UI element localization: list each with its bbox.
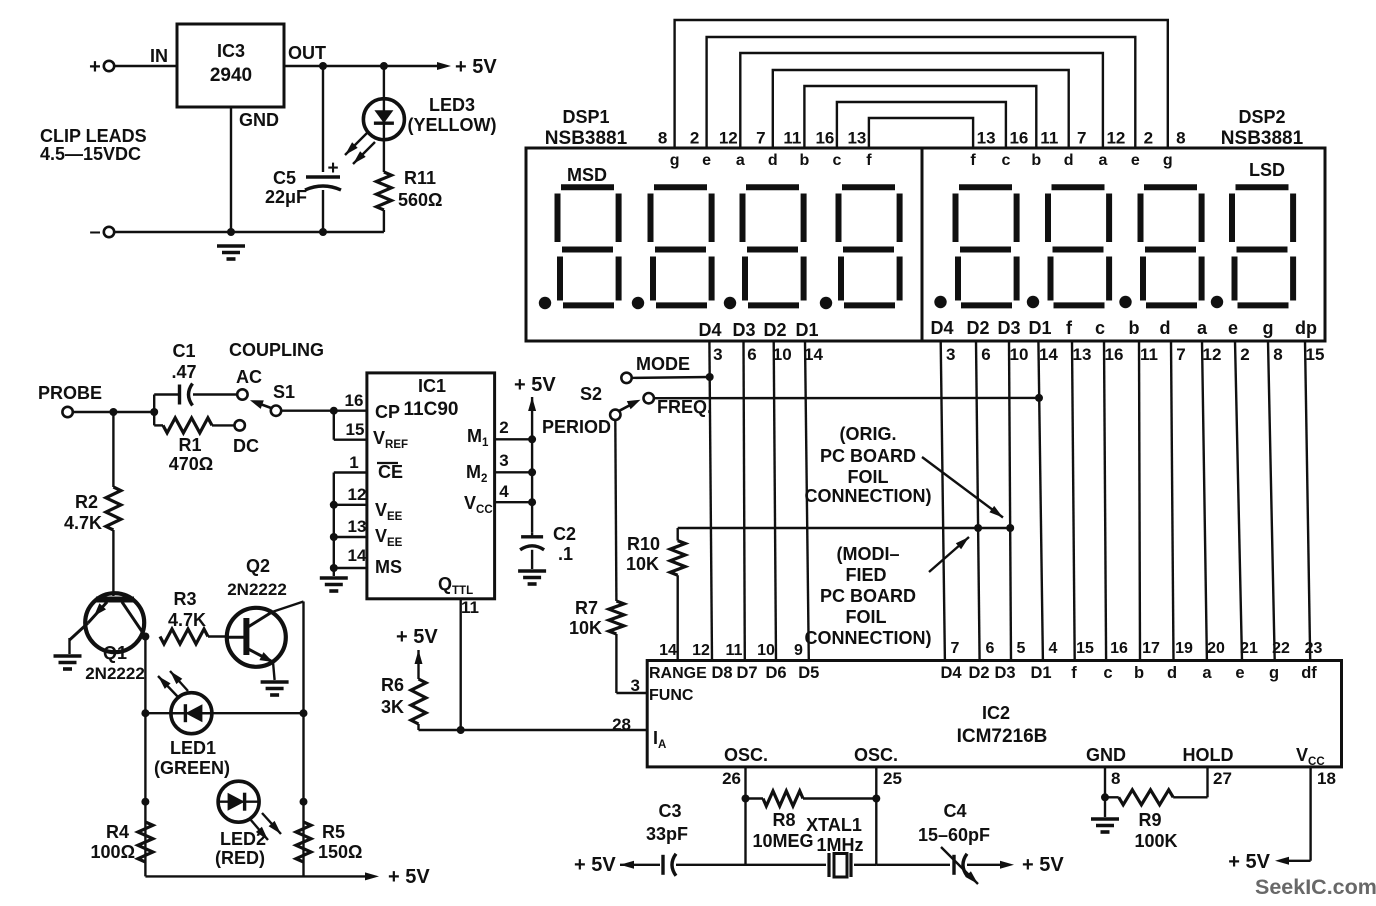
svg-text:+ 5V: + 5V (396, 626, 438, 648)
wire probe to coupling network (73, 395, 158, 426)
svg-text:AC: AC (236, 367, 262, 387)
ground at C2 (518, 571, 546, 584)
svg-text:26: 26 (722, 769, 741, 788)
svg-text:MODE: MODE (636, 354, 690, 374)
svg-text:e: e (1228, 318, 1238, 338)
svg-text:D3: D3 (732, 320, 755, 340)
svg-text:12: 12 (348, 485, 367, 504)
svg-text:R3: R3 (173, 589, 196, 609)
svg-text:11: 11 (783, 129, 801, 148)
svg-text:22μF: 22μF (265, 187, 307, 207)
svg-text:+: + (89, 56, 101, 78)
svg-text:(RED): (RED) (215, 848, 265, 868)
label CLIP LEADS 4.5-15VDC (40, 126, 147, 164)
svg-text:dp: dp (1295, 318, 1317, 338)
svg-text:XTAL1: XTAL1 (806, 815, 862, 835)
wire bottom rail (115, 228, 384, 236)
DSP1 digit 2 segments (632, 187, 712, 309)
svg-text:NSB3881: NSB3881 (545, 128, 628, 149)
IC2 FUNC label (649, 687, 694, 704)
wire DSP2 column pin 10 (1009, 341, 1028, 661)
svg-text:(ORIG.: (ORIG. (840, 424, 897, 444)
wire segment loop e-e DSP1 pin 2 to DSP2 pin 16 (690, 37, 1153, 148)
svg-text:(MODI–: (MODI– (837, 544, 900, 564)
pin 15 VREF stub and tie (334, 411, 367, 440)
svg-text:2N2222: 2N2222 (85, 664, 145, 683)
svg-text:a: a (736, 152, 745, 169)
DSP2 digit 1 segments (934, 187, 1016, 308)
svg-text:11C90: 11C90 (404, 399, 459, 420)
svg-text:R6: R6 (381, 675, 404, 695)
svg-text:d: d (1167, 664, 1177, 682)
svg-text:CLIP LEADS: CLIP LEADS (40, 126, 147, 146)
wire PERIOD down to R7 (615, 420, 616, 601)
svg-text:12: 12 (719, 129, 738, 148)
wire VCC to +5V (1228, 851, 1310, 873)
svg-text:e: e (1131, 152, 1140, 169)
svg-text:d: d (768, 152, 778, 169)
wire DSP2 column pin 6 (976, 341, 991, 661)
svg-text:CONNECTION): CONNECTION) (805, 628, 932, 648)
DSP2 digit 2 segments (1027, 187, 1109, 308)
node +5V right of C4 (1000, 854, 1064, 876)
svg-text:D3: D3 (994, 664, 1015, 682)
display DSP1 NSB3881 (526, 107, 922, 341)
svg-text:3: 3 (499, 451, 508, 470)
pin 16 CP stub (345, 391, 364, 410)
svg-text:13: 13 (348, 517, 367, 536)
svg-text:.1: .1 (558, 544, 573, 564)
svg-text:GND: GND (1086, 745, 1126, 765)
svg-text:D5: D5 (798, 664, 819, 682)
svg-text:COUPLING: COUPLING (229, 340, 324, 360)
led LED2 RED (215, 781, 281, 868)
svg-text:(YELLOW): (YELLOW) (408, 115, 497, 135)
svg-text:4.7K: 4.7K (168, 610, 206, 630)
svg-text:b: b (1031, 152, 1041, 169)
svg-text:2940: 2940 (210, 65, 252, 86)
svg-text:22: 22 (1272, 640, 1290, 657)
svg-text:MS: MS (375, 557, 402, 577)
svg-text:15: 15 (346, 420, 365, 439)
svg-text:11: 11 (461, 598, 479, 617)
pin 18 VCC stub (1296, 745, 1336, 861)
svg-text:3: 3 (946, 345, 955, 364)
svg-text:c: c (1103, 664, 1112, 682)
pin 8 GND stub (1086, 745, 1126, 817)
svg-text:R11: R11 (404, 168, 436, 188)
svg-text:7: 7 (1176, 345, 1185, 364)
svg-text:5: 5 (1017, 640, 1026, 657)
svg-text:12: 12 (1203, 345, 1222, 364)
svg-text:+ 5V: + 5V (1022, 854, 1064, 876)
pin 4 VCC stub (495, 482, 536, 506)
svg-text:D4: D4 (930, 318, 953, 338)
label MODIFIED PC BOARD FOIL CONNECTION (805, 544, 932, 648)
svg-text:8: 8 (658, 129, 667, 148)
svg-text:R10: R10 (627, 534, 660, 554)
wire DSP1 digit column pin 6 (744, 341, 757, 661)
svg-text:PC BOARD: PC BOARD (820, 586, 916, 606)
arrow to modified foil connection (929, 537, 969, 572)
DSP1 digit 4 segments (820, 187, 900, 309)
wire R10 foil connection line (678, 524, 1015, 532)
pin 13 VEE stub (334, 517, 367, 537)
svg-text:g: g (1163, 152, 1173, 169)
resistor R1 470ohm (154, 418, 234, 474)
transistor Q2 2N2222 (227, 556, 304, 680)
svg-text:33pF: 33pF (646, 824, 688, 844)
svg-text:a: a (1202, 664, 1212, 682)
svg-text:g: g (1269, 664, 1279, 682)
svg-text:SeekIC.com: SeekIC.com (1255, 875, 1376, 899)
svg-text:.47: .47 (171, 362, 196, 382)
svg-text:e: e (1235, 664, 1244, 682)
svg-text:10: 10 (1010, 345, 1029, 364)
svg-text:7: 7 (756, 129, 765, 148)
svg-text:2: 2 (499, 418, 508, 437)
svg-text:11: 11 (726, 642, 743, 659)
svg-text:CONNECTION): CONNECTION) (805, 486, 932, 506)
DSP1 digit 3 segments (724, 187, 804, 309)
svg-text:16: 16 (1009, 129, 1028, 148)
svg-text:+: + (327, 158, 338, 179)
svg-text:14: 14 (348, 546, 367, 565)
wire segment loop f-f DSP1 pin 13 to DSP2 pin 8 (847, 118, 995, 148)
IC2 top labels D4-df (940, 664, 1317, 682)
svg-text:OUT: OUT (288, 43, 326, 63)
svg-text:d: d (1160, 318, 1171, 338)
wire DSP2 column pin 3 (941, 341, 956, 661)
led LED1 GREEN (145, 671, 303, 778)
svg-text:16: 16 (1110, 640, 1128, 657)
svg-text:NSB3881: NSB3881 (1221, 128, 1304, 149)
svg-text:10K: 10K (569, 618, 602, 638)
svg-text:1MHz: 1MHz (816, 835, 863, 855)
svg-text:ICM7216B: ICM7216B (957, 726, 1048, 747)
pin 26 OSC stub (722, 745, 768, 865)
svg-text:R7: R7 (575, 598, 598, 618)
pin 14 MS stub (334, 546, 367, 568)
DSP2 top segment letters (970, 152, 1172, 169)
svg-text:7: 7 (1077, 129, 1086, 148)
svg-text:3: 3 (631, 676, 640, 695)
svg-text:(GREEN): (GREEN) (154, 758, 230, 778)
resistor R9 100K (1105, 790, 1208, 851)
wire segment loop c-c DSP1 pin 16 to DSP2 pin 2 (815, 102, 1028, 148)
IC2 top labels RANGE D8-D5 (649, 664, 819, 682)
svg-text:13: 13 (977, 129, 996, 148)
svg-text:DC: DC (233, 436, 259, 456)
svg-text:LED3: LED3 (429, 95, 475, 115)
resistor R11 560ohm (376, 140, 442, 232)
wire IC1 left ground bus (330, 473, 338, 577)
svg-text:C4: C4 (943, 801, 966, 821)
resistor R7 10K (569, 598, 624, 638)
svg-text:R2: R2 (75, 492, 98, 512)
svg-text:15: 15 (1076, 640, 1094, 657)
svg-text:D1: D1 (1030, 664, 1051, 682)
terminal - input (89, 221, 114, 243)
wire DSP2 column pin 15 (1305, 341, 1324, 661)
wire + input to IC3 IN (115, 46, 178, 66)
terminal + input (89, 56, 114, 78)
capacitor C1 .47 (154, 341, 237, 406)
svg-text:+ 5V: + 5V (574, 854, 616, 876)
resistor R2 4.7K (64, 412, 121, 596)
svg-text:CP: CP (375, 402, 400, 422)
svg-text:R9: R9 (1138, 810, 1161, 830)
svg-text:OSC.: OSC. (854, 745, 898, 765)
svg-text:15: 15 (1306, 345, 1325, 364)
svg-text:27: 27 (1213, 769, 1232, 788)
svg-text:C5: C5 (273, 168, 296, 188)
svg-text:16: 16 (1105, 345, 1124, 364)
svg-text:2: 2 (1240, 345, 1249, 364)
wire QTTL pin 11 down (457, 598, 479, 734)
svg-text:g: g (1263, 318, 1274, 338)
wire left rail Q1-collector to bottom (141, 637, 149, 877)
svg-text:DSP2: DSP2 (1238, 107, 1285, 127)
label ORIG PC BOARD FOIL CONNECTION (805, 424, 932, 506)
svg-text:b: b (800, 152, 810, 169)
crystal XTAL1 1MHz (746, 815, 877, 877)
led LED3 YELLOW (345, 66, 496, 164)
svg-text:HOLD: HOLD (1183, 745, 1234, 765)
prescaler IC1 11C90 (367, 373, 495, 599)
capacitor C2 .1 (520, 524, 576, 569)
svg-text:23: 23 (1305, 640, 1323, 657)
wire DSP2 column pin 2 (1235, 341, 1250, 661)
wire right rail Q2-collector to bottom (300, 602, 308, 877)
node +5V at R6 (396, 626, 438, 679)
svg-text:3: 3 (713, 345, 722, 364)
svg-text:b: b (1134, 664, 1144, 682)
svg-text:470Ω: 470Ω (169, 454, 213, 474)
svg-text:28: 28 (612, 715, 631, 734)
resistor R8 10MEG (746, 791, 877, 851)
terminal PROBE (38, 383, 102, 417)
svg-text:9: 9 (794, 642, 803, 659)
svg-text:+ 5V: + 5V (388, 866, 430, 888)
ground at Q2 emitter (261, 682, 289, 695)
wire DSP1 digit column pin 10 (773, 341, 792, 661)
DSP2 digit 4 segments (1211, 187, 1293, 308)
svg-text:4: 4 (499, 482, 509, 501)
svg-text:10K: 10K (626, 554, 659, 574)
svg-text:R4: R4 (106, 822, 129, 842)
svg-text:2N2222: 2N2222 (227, 580, 287, 599)
display DSP2 NSB3881 (922, 107, 1325, 341)
svg-text:a: a (1197, 318, 1208, 338)
svg-text:IN: IN (150, 46, 168, 66)
svg-text:FREQ.: FREQ. (657, 397, 712, 417)
wire DSP2 column pin 14 (1038, 341, 1058, 661)
svg-text:RANGE: RANGE (649, 665, 707, 682)
svg-text:12: 12 (1106, 129, 1125, 148)
wire FREQ to D1 column (654, 394, 1043, 402)
capacitor C5 22uF (265, 66, 341, 232)
svg-text:12: 12 (692, 642, 710, 659)
DSP1 bottom digit labels D4-D1 (698, 320, 818, 340)
svg-text:D6: D6 (765, 664, 786, 682)
ground IC1 bus (320, 578, 348, 591)
svg-text:16: 16 (345, 391, 364, 410)
svg-text:LED2: LED2 (220, 829, 266, 849)
ground at Q1 emitter (54, 656, 82, 669)
pin 12 VEE stub (334, 485, 367, 505)
svg-text:8: 8 (1176, 129, 1185, 148)
svg-text:D4: D4 (698, 320, 721, 340)
svg-text:4: 4 (1049, 640, 1058, 657)
svg-text:df: df (1301, 664, 1317, 682)
svg-text:1: 1 (349, 453, 358, 472)
wire R6/QTTL to IC2 pin 28 IA (419, 715, 648, 734)
svg-text:C3: C3 (658, 801, 681, 821)
wire segment loop b-b DSP1 pin 11 to DSP2 pin 12 (783, 86, 1058, 148)
pin 1 CE stub (334, 453, 367, 473)
svg-text:g: g (670, 152, 680, 169)
pin 2 M1 stub (495, 418, 536, 443)
svg-text:S1: S1 (273, 382, 295, 402)
svg-text:16: 16 (815, 129, 834, 148)
wire GND lead down (230, 107, 232, 232)
svg-text:R1: R1 (178, 435, 201, 455)
svg-text:+ 5V: + 5V (1228, 851, 1270, 873)
svg-text:D2: D2 (763, 320, 786, 340)
svg-text:4.7K: 4.7K (64, 513, 102, 533)
IC2 IA label pin 28 (653, 728, 666, 751)
pin 25 OSC stub (854, 745, 902, 865)
resistor R6 3K (381, 675, 426, 730)
svg-text:21: 21 (1240, 640, 1258, 657)
svg-text:13: 13 (1073, 345, 1092, 364)
svg-text:FOIL: FOIL (848, 467, 889, 487)
wire segment loop g-g DSP1 pin 8 to DSP2 pin 13 (658, 20, 1186, 148)
svg-text:D1: D1 (1028, 318, 1051, 338)
node +5V left of C3 (574, 854, 660, 876)
IC2 top pin numbers left group (659, 642, 803, 659)
transistor Q1 2N2222 (70, 593, 145, 683)
svg-text:D4: D4 (940, 664, 962, 682)
wire DSP2 column pin 13 (1072, 341, 1091, 661)
svg-text:f: f (1071, 664, 1077, 682)
svg-text:f: f (866, 152, 872, 169)
svg-text:560Ω: 560Ω (398, 190, 442, 210)
capacitor C3 33pF (646, 801, 746, 876)
svg-text:OSC.: OSC. (724, 745, 768, 765)
node +5V output arrow (437, 56, 497, 78)
counter IC2 ICM7216B (647, 661, 1341, 767)
resistor R5 150ohm (296, 822, 362, 862)
switch S1 COUPLING AC/DC (229, 340, 324, 456)
svg-text:11: 11 (1040, 129, 1058, 148)
svg-text:DSP1: DSP1 (562, 107, 609, 127)
svg-text:+ 5V: + 5V (514, 374, 556, 396)
regulator IC3 2940 (177, 24, 326, 130)
svg-text:LSD: LSD (1249, 160, 1285, 180)
svg-text:7: 7 (951, 640, 960, 657)
ground near IC3 (217, 246, 245, 259)
svg-text:8: 8 (1111, 769, 1120, 788)
IC2 top pin numbers right group (951, 640, 1323, 657)
wire DSP2 column pin 12 (1202, 341, 1221, 661)
wire R7 to IC2 pin 3 FUNC (616, 634, 647, 695)
svg-text:D2: D2 (968, 664, 989, 682)
svg-text:+ 5V: + 5V (455, 56, 497, 78)
svg-text:100Ω: 100Ω (91, 842, 135, 862)
wire DSP1 digit column pin 14 (804, 341, 823, 661)
svg-text:4.5—15VDC: 4.5—15VDC (40, 144, 141, 164)
svg-text:FIED: FIED (845, 565, 886, 585)
resistor R10 10K (626, 528, 685, 661)
svg-text:10: 10 (757, 642, 775, 659)
svg-text:14: 14 (659, 642, 677, 659)
wire segment loop d-d DSP1 pin 7 to DSP2 pin 7 (756, 70, 1086, 148)
wire DSP2 column pin 16 (1104, 341, 1123, 661)
svg-text:CE: CE (378, 462, 403, 482)
svg-text:f: f (970, 152, 976, 169)
svg-text:f: f (1066, 318, 1073, 338)
svg-text:8: 8 (1273, 345, 1282, 364)
capacitor C4 15-60pF variable (876, 801, 1000, 884)
svg-text:FOIL: FOIL (846, 607, 887, 627)
svg-text:6: 6 (981, 345, 990, 364)
svg-text:11: 11 (1140, 345, 1158, 364)
svg-text:14: 14 (804, 345, 823, 364)
svg-text:D2: D2 (966, 318, 989, 338)
svg-text:IC2: IC2 (982, 703, 1010, 723)
svg-text:D7: D7 (736, 664, 757, 682)
wire DSP1 digit column pin 3 (709, 341, 722, 661)
svg-text:10: 10 (773, 345, 792, 364)
svg-text:R5: R5 (322, 822, 345, 842)
svg-text:R8: R8 (772, 810, 795, 830)
resistor R3 4.7K (160, 589, 227, 644)
svg-text:PC BOARD: PC BOARD (820, 446, 916, 466)
svg-text:3K: 3K (381, 697, 404, 717)
svg-text:C1: C1 (172, 341, 195, 361)
arrow to original foil connection (922, 457, 1003, 518)
svg-text:GND: GND (239, 110, 279, 130)
svg-text:19: 19 (1175, 640, 1193, 657)
svg-text:D8: D8 (711, 664, 732, 682)
svg-text:e: e (702, 152, 711, 169)
svg-text:17: 17 (1142, 640, 1160, 657)
wire segment loop a-a DSP1 pin 12 to DSP2 pin 11 (719, 53, 1126, 148)
svg-text:PERIOD: PERIOD (542, 417, 611, 437)
svg-text:2: 2 (690, 129, 699, 148)
svg-text:c: c (1001, 152, 1010, 169)
svg-text:LED1: LED1 (170, 738, 216, 758)
wire bottom +5V rail (145, 866, 430, 888)
wire DSP2 column pin 7 (1171, 341, 1186, 661)
DSP2 digit 3 segments (1119, 187, 1201, 308)
svg-text:2: 2 (1144, 129, 1153, 148)
ground at IC2 pin 8 (1091, 819, 1119, 832)
svg-text:Q1: Q1 (103, 643, 127, 663)
svg-text:IC3: IC3 (217, 41, 245, 61)
svg-text:100K: 100K (1134, 831, 1177, 851)
svg-text:D1: D1 (795, 320, 818, 340)
svg-text:S2: S2 (580, 384, 602, 404)
svg-text:FUNC: FUNC (649, 687, 694, 704)
svg-text:C2: C2 (553, 524, 576, 544)
svg-text:c: c (832, 152, 841, 169)
svg-text:b: b (1129, 318, 1140, 338)
svg-text:14: 14 (1039, 345, 1058, 364)
svg-text:18: 18 (1317, 769, 1336, 788)
